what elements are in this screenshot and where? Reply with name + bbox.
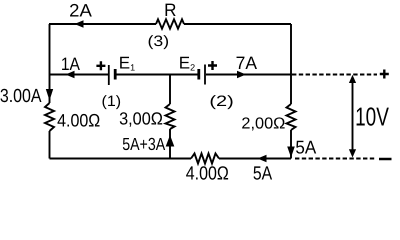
wire left vertical lower xyxy=(49,131,51,159)
wire middle row segment C xyxy=(206,74,291,76)
terminal polarity minus right xyxy=(379,158,392,161)
wire top left segment xyxy=(49,23,156,25)
battery E2 short plate xyxy=(197,69,200,80)
svg-text:(2): (2) xyxy=(209,93,233,110)
svg-text:10V: 10V xyxy=(355,101,389,131)
battery E1 short plate xyxy=(114,69,117,80)
arrow current 1A left xyxy=(66,71,75,78)
resistor R4 4.00ohm bottom xyxy=(191,154,219,164)
wire middle row segment A xyxy=(50,74,109,76)
svg-text:3,00Ω: 3,00Ω xyxy=(119,108,163,128)
terminal polarity plus right xyxy=(380,70,389,79)
wire bottom right segment xyxy=(219,158,291,160)
arrow current 2A left xyxy=(75,20,84,27)
arrow current 5A left bottom xyxy=(258,155,267,162)
svg-text:4.00Ω: 4.00Ω xyxy=(57,111,100,131)
battery E2 polarity plus xyxy=(208,61,217,70)
arrow current 5A+3A up xyxy=(166,135,175,147)
node - terminal dashed lead bottom xyxy=(295,158,375,160)
svg-text:5A: 5A xyxy=(253,164,273,185)
svg-text:3.00A: 3.00A xyxy=(0,86,42,107)
arrow current 5A down right branch xyxy=(287,147,295,158)
wire middle branch lower xyxy=(169,129,171,159)
wire left vertical upper xyxy=(49,24,51,103)
resistor R xyxy=(156,19,184,28)
wire middle branch upper xyxy=(169,75,171,105)
svg-text:4.00Ω: 4.00Ω xyxy=(186,164,229,185)
resistor R3 2.00ohm right xyxy=(287,104,296,130)
svg-text:5A: 5A xyxy=(295,136,316,157)
svg-text:2A: 2A xyxy=(69,0,92,20)
node + terminal dashed lead top xyxy=(292,74,377,76)
svg-text:5A+3A: 5A+3A xyxy=(122,134,165,154)
arrow voltage 10V up head xyxy=(349,75,356,83)
battery E1 long plate xyxy=(108,65,110,85)
resistor R1 4.00ohm left xyxy=(45,103,54,131)
wire right vertical upper xyxy=(290,24,292,104)
battery E1 polarity plus xyxy=(96,61,105,70)
svg-text:E2: E2 xyxy=(179,54,195,73)
svg-text:2,00Ω: 2,00Ω xyxy=(241,116,285,133)
battery E2 long plate xyxy=(204,65,206,85)
wire right vertical lower xyxy=(290,130,292,159)
svg-text:(3): (3) xyxy=(147,33,169,50)
svg-text:R: R xyxy=(164,0,176,20)
wire middle row segment B xyxy=(117,74,199,76)
svg-text:1A: 1A xyxy=(61,54,80,74)
voltage measurement line 10V xyxy=(352,80,354,152)
arrow voltage 10V down head xyxy=(349,149,356,157)
wire bottom left segment xyxy=(50,158,192,160)
resistor R2 3.00ohm middle xyxy=(166,104,175,129)
arrow current 7A right xyxy=(237,71,246,78)
arrow current 3.00A down xyxy=(46,89,53,101)
svg-text:E1: E1 xyxy=(119,53,135,72)
wire top right segment xyxy=(184,23,291,25)
svg-text:7A: 7A xyxy=(236,53,257,73)
